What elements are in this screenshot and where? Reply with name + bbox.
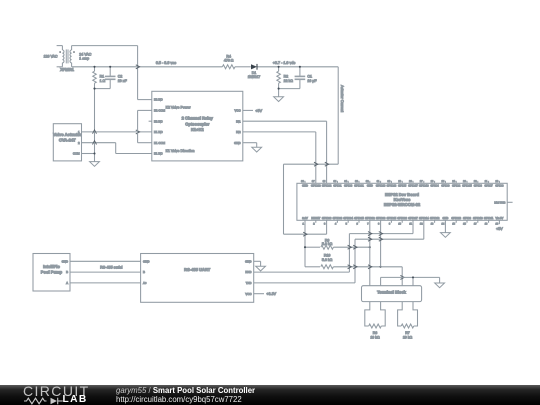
ESP32 bottom pin GPIO39 label [333,217,343,220]
ESP32 bottom pin GND label [442,217,448,220]
svg-text:Pool Pump: Pool Pump [41,269,63,274]
wire UART GND right [254,260,261,262]
footer url text [116,395,242,404]
svg-text:VCC: VCC [245,292,251,296]
ESP32 top pin GPIO21 label [354,185,364,188]
capacitor C2 [105,67,128,89]
svg-text:RS-485 UART: RS-485 UART [184,267,211,272]
ESP32 top pin GPIO7 stub [488,181,490,184]
svg-text:120 VAC: 120 VAC [44,55,58,59]
IntelliFlo Pool Pump box [33,254,70,292]
wire pump B to UART [70,271,141,273]
ESP32 bottom pin GPIO13 label [451,217,461,220]
ESP32 bottom pin RESET stub [315,220,317,223]
svg-text:GPIO9: GPIO9 [463,217,472,220]
svg-text:1N5817: 1N5817 [248,75,260,79]
valve pin COM label [73,152,80,156]
wire xfmr top lead [72,45,138,47]
pump pin GND label [62,259,68,263]
svg-text:GPIO26: GPIO26 [397,217,407,220]
ESP32 top pin GPIO6 label [495,185,504,188]
ESP32 bottom pin number 6 [356,223,358,226]
ESP32 top pin number 27 [420,180,423,183]
ESP32 top pin number 32 [366,180,369,183]
wire RXD row [254,271,350,273]
ESP32 top pin GPIO23 label [311,185,321,188]
ESP32 bottom pin GPIO35 stub [358,220,360,223]
ESP32 top pin GPIO15 stub [466,181,468,184]
net label Actuator Current [340,85,344,112]
svg-text:Actuator Current: Actuator Current [340,85,344,112]
ESP32 bottom pin GPIO14 label [419,217,429,220]
svg-text:GPIO36: GPIO36 [322,217,332,220]
svg-text:10 nF: 10 nF [118,79,128,83]
ESP32 top pin number 25 [442,180,445,183]
relay title line2 [185,121,209,126]
svg-text:K2 COM: K2 COM [154,109,166,113]
relay K2 function label [166,106,192,110]
net flag +5V at Vin [496,227,503,231]
wire sense to GPIO36 [284,233,327,235]
wire GPIO27 down [412,220,414,233]
ESP32 top pin number 28 [409,180,412,183]
ESP32 top pin number 34 [344,180,347,183]
wire 24VAC rail [72,66,223,68]
relay pin IN2 label [236,130,241,134]
svg-text:GPIO13: GPIO13 [451,217,461,220]
wire UART VCC stub [254,293,264,295]
wire relay GND right [243,142,257,144]
wire sense left vertical [283,164,285,234]
svg-text:K1 Valve Direction: K1 Valve Direction [166,149,195,153]
wire crossover hop [348,245,352,249]
UART pin RXD label [245,270,251,274]
ESP32 bottom pin GPIO33 label [376,217,386,220]
wire crossover hop [368,232,372,236]
resistor R10 [321,254,334,269]
ESP32 top pin GPIO7 label [485,185,494,188]
svg-text:GPIO16: GPIO16 [419,185,429,188]
ESP32 top pin GPIO19 stub [380,181,382,184]
svg-text:IntelliFlo: IntelliFlo [43,264,60,269]
relay pin K2 NO label [154,98,163,102]
ESP32 top pin GPIO16 label [419,185,429,188]
svg-text:GPIO23: GPIO23 [311,185,321,188]
relay pin K1 NC label [154,152,163,156]
ESP32 bottom pin number 10 [398,223,401,226]
ESP32 bottom pin GPIO25 label [387,217,397,220]
svg-text:K1 NO: K1 NO [154,130,163,134]
RS-485 UART box [141,254,254,303]
ESP32 bottom pin GPIO27 label [408,217,418,220]
relay pin K2 COM label [154,109,166,113]
wire GPIO14 down [423,220,425,239]
svg-text:1 Ω: 1 Ω [100,79,106,83]
ESP32 bottom pin number 18 [485,223,488,226]
ESP32 top pin GPIO3 label [344,185,353,188]
svg-text:GPIO19: GPIO19 [376,185,386,188]
pump pin A label [66,281,68,285]
valve actuator CVA-24T box [53,124,81,161]
wire pump A to UART [70,282,141,284]
svg-text:K2 NO: K2 NO [154,98,163,102]
net label RS-485 serial [100,265,123,269]
wire GPIO14 row left [355,238,424,240]
wire ESP32 GND down [444,220,446,232]
valve actuator title [53,132,82,137]
svg-text:RESET: RESET [311,217,320,220]
ESP32 bottom pin GPIO36 label [322,217,332,220]
junction R2 top [278,66,280,68]
ESP32 top pin GND stub [369,181,371,184]
ESP32 title line3 [384,202,421,207]
thermistor loop R6 [365,302,385,326]
resistor R2 [277,67,293,89]
svg-text:GPIO21: GPIO21 [354,185,364,188]
ESP32 bottom pin GPIO11 label [484,217,494,220]
terminal block box [362,286,422,302]
wire crossover hop [325,162,329,166]
ESP32 top pin number 24 [452,180,455,183]
relay K1 function label [166,149,195,153]
ESP32 bottom pin Vin 5V label [496,217,504,220]
wire pump GND to UART [70,260,141,262]
wire TB pin4 stub [412,277,414,285]
svg-text:+3.3V: +3.3V [266,292,276,296]
wire 3.3V rail down to R10 [304,247,306,267]
junction R9-GPIO32 [369,246,371,248]
resistor R6 [369,324,382,339]
ESP32 bottom pin number 17 [474,223,477,226]
resistor R1 [93,67,106,89]
ESP32 top pin GPIO1 stub [336,181,338,184]
svg-text:K1 COM: K1 COM [154,141,166,145]
ESP32 top pin number 30 [388,180,391,183]
ground below valve [90,162,100,167]
svg-text:GND: GND [367,185,373,188]
ESP32 bottom pin number 12 [420,223,423,226]
ESP32 bottom pin number 8 [378,223,380,226]
ESP32 bottom pin number 15 [452,223,455,226]
wire IN1 vertical to GPIO22 [326,121,328,183]
svg-text:10 kΩ: 10 kΩ [370,335,380,339]
UART pin A+ label [143,281,147,285]
ESP32 top pin GPIO4 stub [434,181,436,184]
svg-text:GPIO8: GPIO8 [474,185,483,188]
wire IN2 vertical to GPIO23 [315,132,317,183]
ESP32 top pin number 20 [496,180,499,183]
wire crossover hop [93,141,97,145]
svg-text:VCC: VCC [234,109,240,113]
footer title text [116,386,255,395]
svg-text:+0.7 - 1.0 vdc: +0.7 - 1.0 vdc [273,61,296,65]
wire into K2 NO [138,99,152,101]
wire IN1 to GPIO22 [243,120,327,122]
ESP32 Mini USB pin label [494,201,505,204]
svg-text:GPIO11: GPIO11 [484,217,494,220]
transformer XFMR1 [44,46,92,72]
CircuitLab logo [23,383,90,399]
net label 0.5 - 9.9 vac [156,61,176,65]
svg-text:2 Channel Relay: 2 Channel Relay [182,116,214,121]
valve pin 1 label [78,130,80,134]
ESP32 bottom pin number 19 [496,223,499,226]
junction valve COM [93,152,95,154]
wire ground rail at valve [94,89,96,162]
ESP32 bottom pin GPIO10 stub [477,220,479,223]
ESP32 bottom pin number 14 [442,223,445,226]
svg-text:ESP32-WROOM-32: ESP32-WROOM-32 [384,202,421,207]
svg-text:GPIO3: GPIO3 [344,185,353,188]
ESP32 bottom pin GPIO13 stub [455,220,457,223]
relay pin K2 NC label [154,119,163,123]
svg-text:GPIO39: GPIO39 [333,217,343,220]
svg-text:GPIO14: GPIO14 [419,217,429,220]
pump pin B label [66,270,68,274]
svg-text:5.6 kΩ: 5.6 kΩ [322,258,333,262]
ESP32 top pin number 35 [334,180,337,183]
ESP32 bottom pin GPIO25 stub [390,220,392,223]
svg-text:10 kΩ: 10 kΩ [403,335,413,339]
wire K2 COM to K1 COM vertical [137,110,139,142]
ESP32 bottom pin number 16 [463,223,466,226]
svg-text:GPIO6: GPIO6 [495,185,504,188]
svg-text:TXD: TXD [246,281,252,285]
svg-text:Mini USB: Mini USB [494,201,505,204]
wire VCC stub [243,109,253,111]
UART pin TXD label [246,281,252,285]
wire valve pin2 down [115,143,117,154]
svg-text:GPIO7: GPIO7 [485,185,494,188]
ESP32 bottom pin number 2 [313,223,315,226]
ESP32 bottom pin 3.3V label [302,217,308,220]
wire GPIO36 stub down [326,220,328,234]
svg-text:A: A [66,281,68,285]
wire crossover hop [136,65,140,69]
ESP32 top pin GPIO17 stub [412,181,414,184]
ESP32 top pin number 21 [485,180,488,183]
wire R10 right to GPIO33 net [333,266,380,268]
ESP32 Dev Board KeeYees module box [297,183,507,220]
svg-text:K1+K2: K1+K2 [191,127,204,132]
svg-text:1 amp: 1 amp [79,57,89,61]
wire GPIO32 to terminal block pin1 [369,220,371,285]
relay module box 2 Channel Relay K1+K2 [152,91,243,161]
svg-text:GND: GND [442,217,448,220]
IntelliFlo title line1 [43,264,60,269]
svg-text:22 kΩ: 22 kΩ [284,79,294,83]
wire TB ground row [381,276,440,278]
ESP32 bottom pin GPIO35 label [354,217,364,220]
ESP32 top pin GPIO1 label [333,185,342,188]
stub K2 NC [149,120,152,122]
svg-text:+5V: +5V [496,227,503,231]
ESP32 top pin GPIO6 stub [498,181,500,184]
ESP32 top pin GPIO8 label [474,185,483,188]
ESP32 bottom pin GPIO9 stub [466,220,468,223]
wire GPIO33 net right [381,266,403,268]
resistor R7 [401,324,414,339]
junction 3.3V rail [304,246,306,248]
svg-text:XFMR1: XFMR1 [60,67,75,72]
wire UART GND down [260,261,262,266]
svg-text:GPIO17: GPIO17 [408,185,418,188]
ESP32 bottom pin GPIO11 stub [488,220,490,223]
CircuitLab footer bar [0,385,540,405]
wire down to terminal block pin3 [401,267,403,286]
valve pin 2 label [78,141,80,145]
svg-text:GPIO12: GPIO12 [430,217,440,220]
svg-text:GND: GND [234,141,240,145]
ESP32 bottom pin number 9 [389,223,391,226]
ESP32 title line1 [385,192,419,197]
ESP32 top pin GPIO22 label [322,185,332,188]
ESP32 top pin number 37 [312,180,315,183]
ESP32 bottom pin number 3 [324,223,326,226]
svg-text:K2 NC: K2 NC [154,119,163,123]
wire crossover hop [353,265,357,269]
ESP32 bottom pin GPIO12 label [430,217,440,220]
relay pin K1 COM label [154,141,166,145]
svg-text:GPIO4: GPIO4 [431,185,440,188]
svg-text:GND: GND [302,185,308,188]
svg-text:0.5 - 9.9 vac: 0.5 - 9.9 vac [156,61,176,65]
ESP32 top pin number 29 [398,180,401,183]
svg-text:GPIO35: GPIO35 [354,217,364,220]
svg-text:GPIO34: GPIO34 [343,217,353,220]
wire R1-C2 bottom [95,88,111,90]
wire RXD vertical [348,234,350,273]
junction R10-GPIO33 [380,266,382,268]
ESP32 bottom pin number 5 [346,223,348,226]
relay pin IN1 label [236,119,241,123]
svg-text:GPIO18: GPIO18 [387,185,397,188]
relay pin GND label [234,141,240,145]
wire GPIO27 row left [349,233,413,235]
svg-text:+5V: +5V [255,109,262,113]
svg-text:GPIO25: GPIO25 [387,217,397,220]
capacitor C1 [295,67,318,89]
junction TB pin4 [412,276,414,278]
ESP32 bottom pin GPIO26 stub [401,220,403,223]
svg-text:470 Ω: 470 Ω [224,59,234,63]
svg-text:RXD: RXD [245,270,251,274]
junction R1 top [93,66,95,68]
svg-text:B: B [66,270,68,274]
wire R2-C1 bottom [279,88,300,90]
UART pin B label [143,270,145,274]
svg-text:GPIO1: GPIO1 [333,185,342,188]
svg-text:K2 Valve Power: K2 Valve Power [166,106,192,110]
wire R9 right to GPIO32 net [333,246,369,248]
wire down to K2 NO [137,46,139,100]
svg-text:GPIO15: GPIO15 [462,185,472,188]
svg-text:IN1: IN1 [236,119,241,123]
ESP32 top pin GPIO19 label [376,185,386,188]
svg-text:COM: COM [73,152,80,156]
ESP32 top pin GPIO5 label [398,185,407,188]
wire crossover hop [136,130,140,134]
ESP32 bottom pin GPIO34 label [343,217,353,220]
thermistor loop R7 [398,302,418,326]
wire TXD row [254,282,355,284]
ESP32 top pin number 26 [431,180,434,183]
ESP32 top pin number 38 [301,180,304,183]
ESP32 top pin GPIO18 label [387,185,397,188]
svg-text:GPIO33: GPIO33 [376,217,386,220]
svg-text:GPIO5: GPIO5 [398,185,407,188]
ESP32 top pin number 23 [463,180,466,183]
ESP32 bottom pin number 13 [431,223,434,226]
RS-485 UART title [184,267,211,272]
ESP32 top pin GND label [302,185,308,188]
ESP32 top pin GND stub [304,181,306,184]
wire to TB ground [439,277,441,283]
wire R2 to ground [278,89,280,97]
ESP32 bottom pin number 1 [302,223,304,226]
svg-text:B: B [143,270,145,274]
ESP32 bottom pin number 7 [367,223,369,226]
svg-text:Vin 5V: Vin 5V [496,217,504,220]
svg-text:GND: GND [62,259,68,263]
wire crossover hop [400,275,404,279]
ESP32 top pin number 22 [474,180,477,183]
ground at ESP32 GND [441,233,451,238]
wire valve pin1 to K1 NO [82,131,152,133]
svg-text:GPIO27: GPIO27 [408,217,418,220]
ESP32 top pin GPIO2 label [452,185,461,188]
wire into K1 NC [116,153,152,155]
ESP32 bottom pin number 4 [335,223,337,226]
resistor R9 [321,238,334,249]
wire Vin 5V stub [498,220,500,224]
ground at relay [252,147,262,152]
relay pin VCC label [234,109,240,113]
ESP32 top pin GPIO0 stub [444,181,446,184]
ESP32 top pin GPIO21 stub [358,181,360,184]
ground at terminal block [435,283,445,288]
UART pin GND label [245,259,251,263]
ESP32 bottom pin number 11 [409,223,412,226]
IntelliFlo title line2 [41,269,63,274]
UART pin GND label [143,259,149,263]
resistor R4 [222,55,235,69]
ESP32 bottom pin GPIO26 label [397,217,407,220]
svg-text:Terminal Block: Terminal Block [377,289,406,294]
ESP32 bottom pin GPIO10 label [473,217,483,220]
wire valve COM to ground rail [82,153,95,155]
terminal block title [377,289,406,294]
ESP32 title line2 [394,197,411,202]
svg-text:GND: GND [143,259,149,263]
ESP32 bottom pin GPIO34 stub [347,220,349,223]
wire TXD vertical [354,239,356,283]
ESP32 top pin GPIO2 stub [455,181,457,184]
wire R4 to D1 [235,66,251,68]
svg-text:GPIO32: GPIO32 [365,217,375,220]
svg-text:3.3V: 3.3V [302,217,308,220]
ESP32 top pin GPIO3 stub [347,181,349,184]
ESP32 top pin GPIO18 stub [390,181,392,184]
wire GPIO33 down [380,220,382,266]
wire crossover hop [368,265,372,269]
wire crossover hop [314,162,318,166]
wire crossover hop [303,232,307,236]
diode D1 [248,64,260,79]
ground at R2 [274,97,284,102]
wire crossover hop [379,237,383,241]
ESP32 top pin GPIO5 stub [401,181,403,184]
